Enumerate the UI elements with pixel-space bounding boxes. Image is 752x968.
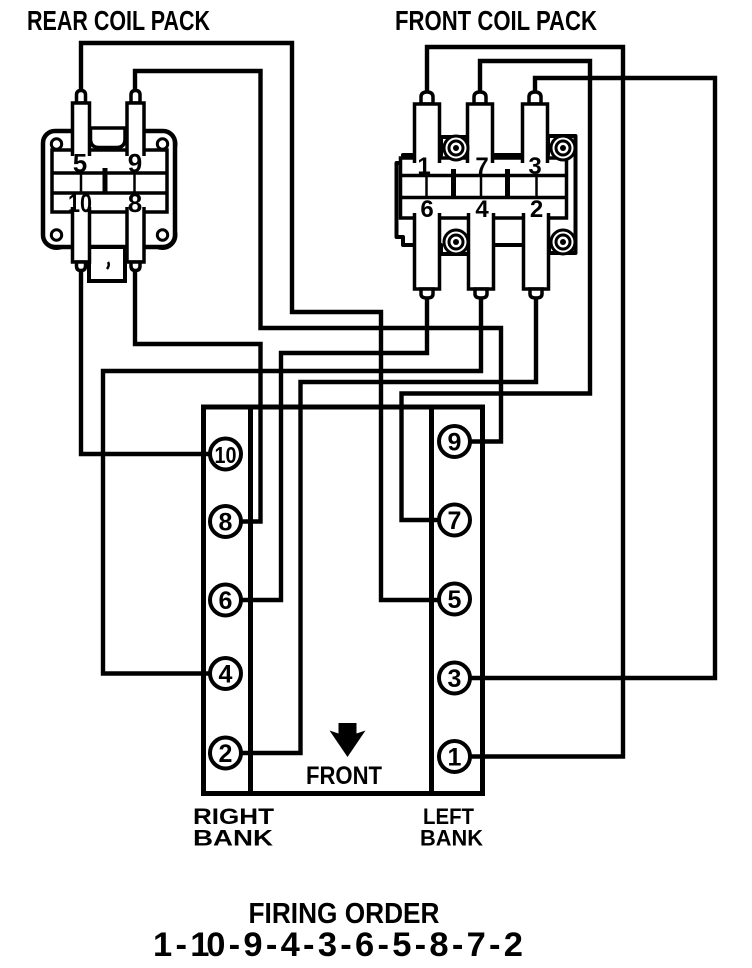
svg-text:6: 6 (420, 196, 433, 223)
front pack terminal labels (417, 153, 543, 223)
wire coil7 to cyl7 (402, 61, 591, 520)
front pack tower 2 (bottom) (524, 213, 549, 298)
rear pack ear holes (51, 139, 167, 240)
svg-text:6: 6 (219, 587, 233, 615)
front pack tower 7 (top) (468, 92, 493, 163)
cylinder nodes (210, 426, 470, 772)
svg-text:8: 8 (128, 188, 142, 218)
node cyl 10 (210, 439, 241, 470)
node cyl 5 (439, 584, 470, 615)
svg-text:FRONT COIL PACK: FRONT COIL PACK (395, 5, 597, 36)
svg-text:3: 3 (448, 665, 462, 693)
front pack body (castellated outline) (397, 136, 576, 254)
front pack tower 4 (bottom) (469, 213, 494, 298)
wire coil3 to cyl3 (454, 78, 715, 678)
wire coil5 to cyl5 (81, 43, 454, 600)
svg-text:8: 8 (219, 509, 233, 537)
svg-text:1 - 10 - 9 - 4 - 3 - 6 - 5 - 8: 1 - 10 - 9 - 4 - 3 - 6 - 5 - 8 - 7 - 2 (153, 926, 523, 964)
node cyl 1 (439, 741, 470, 772)
svg-text:1: 1 (448, 744, 462, 772)
node cyl 9 (439, 426, 470, 457)
svg-text:4: 4 (219, 661, 233, 689)
rear pack top saddle notch (91, 128, 126, 148)
rear pack tower 9 (top right) (127, 91, 144, 157)
front coil pack (397, 92, 576, 298)
svg-text:2: 2 (530, 196, 543, 223)
node cyl 2 (210, 738, 241, 769)
svg-text:7: 7 (475, 153, 488, 180)
wire coil2 to cyl2 (226, 297, 536, 753)
rear pack terminal labels (68, 148, 142, 218)
svg-text:FRONT: FRONT (306, 762, 382, 790)
wire coil9 to cyl9 (135, 71, 501, 442)
svg-text:9: 9 (128, 148, 142, 178)
rear coil pack (43, 91, 176, 282)
svg-text:5: 5 (73, 148, 87, 178)
node cyl 7 (439, 505, 470, 536)
right bank inner line (248, 407, 253, 794)
svg-text:5: 5 (448, 586, 462, 614)
front pack tower 1 (top) (415, 92, 440, 163)
rear pack label panel (52, 150, 167, 212)
node cyl 6 (210, 585, 241, 616)
front pack label panel (401, 158, 567, 218)
rear pack body (43, 131, 175, 247)
node cyl 3 (439, 663, 470, 694)
wire coil6 to cyl6 (226, 297, 427, 600)
svg-text:REAR COIL PACK: REAR COIL PACK (27, 5, 210, 36)
front pack tower 6 (bottom) (415, 213, 440, 298)
rear pack tower 8 (bottom right) (127, 207, 144, 271)
rear pack tower 5 (top left) (73, 91, 90, 157)
svg-text:9: 9 (448, 429, 462, 457)
svg-text:2: 2 (219, 740, 233, 768)
front pack bolt bosses (444, 136, 575, 254)
engine block outline (204, 407, 483, 794)
svg-text:3: 3 (528, 153, 541, 180)
svg-text:7: 7 (448, 507, 462, 535)
node cyl 4 (210, 658, 241, 689)
wire coil8 to cyl8 (135, 266, 261, 522)
svg-text:10: 10 (215, 442, 237, 468)
svg-text:BANK: BANK (193, 826, 273, 851)
rear pack tower 10 (bottom left) (73, 207, 90, 271)
node cyl 8 (210, 506, 241, 537)
wire coil1 to cyl1 (427, 47, 623, 757)
wire coil4 to cyl4 (103, 297, 481, 674)
svg-text:10: 10 (68, 188, 92, 218)
svg-text:4: 4 (475, 196, 489, 223)
svg-text:1: 1 (417, 153, 430, 180)
svg-text:BANK: BANK (420, 826, 483, 851)
wire coil10 to cyl10 (81, 266, 226, 454)
front arrow (330, 723, 366, 757)
left bank inner line (429, 407, 434, 794)
rear pack connector block (89, 247, 125, 281)
front pack tower 3 (top) (523, 92, 548, 163)
rear pack body corner lobes (44, 131, 176, 248)
